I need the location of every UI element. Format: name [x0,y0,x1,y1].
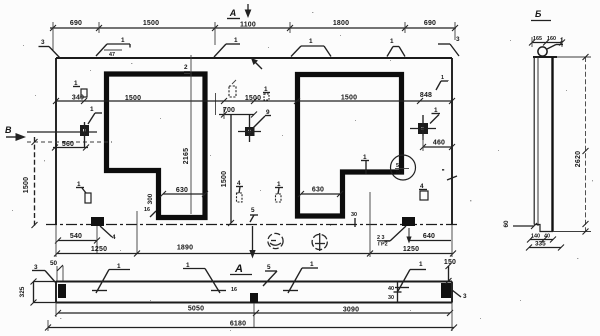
svg-text:1250: 1250 [403,246,419,253]
side view top dim 165 160 [529,36,565,47]
center vertical dim 1500 [221,115,234,227]
svg-text:40: 40 [388,286,394,292]
svg-text:16: 16 [231,287,237,293]
section arrow B left [5,125,26,141]
flag 3 bar left [32,264,56,283]
svg-text:1500: 1500 [143,20,159,27]
svg-text:540: 540 [70,233,82,240]
svg-text:5: 5 [267,264,271,271]
dim 630 opening1 [160,187,208,197]
lifting loop square center [238,109,271,142]
bar anchor right [441,283,451,298]
side view bottom dims 140 40 335 [526,234,564,251]
lifting loop square left [27,106,112,148]
svg-text:1250: 1250 [91,246,107,253]
dim 150 right [444,259,456,284]
svg-text:30: 30 [388,295,394,301]
flag 3 top-right corner [438,36,460,56]
flag near 848 [436,75,448,90]
flag 1 center-right [291,38,331,57]
dim 560 [52,141,89,151]
svg-text:3: 3 [41,39,45,46]
item symbol 1 between openings [275,181,283,202]
svg-text:690: 690 [424,20,436,27]
svg-text:165: 165 [533,36,542,42]
tick on right edge [442,169,457,180]
side view body [533,57,591,232]
bar flag 1 b [183,262,226,293]
svg-text:1: 1 [309,38,313,45]
svg-text:340: 340 [72,95,84,102]
flag 16 on chain line left [137,207,156,254]
flag 30 on chain line right [351,212,357,227]
anchor plate right bottom [377,217,415,248]
svg-text:1: 1 [441,75,444,81]
side view loop flag [547,38,563,49]
svg-text:9: 9 [266,109,270,116]
svg-text:16: 16 [144,207,150,213]
detail circle callout 5 [391,155,416,180]
svg-text:2165: 2165 [183,148,190,164]
flag 5 on bar top [263,264,277,286]
svg-text:5: 5 [251,207,255,214]
svg-text:325: 325 [19,286,26,297]
bottom dim row 1250 1890 1250 [54,192,456,257]
svg-text:47: 47 [109,52,115,58]
svg-text:3090: 3090 [343,307,359,314]
svg-text:630: 630 [312,187,324,194]
opening 1 (left, thick border) [107,74,206,218]
item symbol 1 above 340 [73,80,87,97]
label 2 below top edge [184,64,190,74]
svg-text:60: 60 [503,220,510,228]
svg-text:1: 1 [310,261,314,268]
svg-text:1: 1 [434,107,438,114]
svg-text:30: 30 [351,212,357,218]
dim 460 [420,136,455,151]
svg-text:1500: 1500 [23,177,30,193]
svg-text:1: 1 [234,37,238,44]
flag 1 over opening2 [387,38,405,57]
bar anchor left [58,284,66,298]
svg-text:1800: 1800 [333,20,349,27]
svg-text:50: 50 [50,260,58,267]
svg-text:848: 848 [420,92,432,99]
bar flag 1 c [283,261,318,293]
flag 3 bar right anchor [452,290,467,300]
svg-text:4: 4 [112,234,116,241]
dim 325 vertical left [19,279,37,306]
item symbol 4 between openings [236,180,243,202]
lifting loop square right [410,107,440,140]
svg-text:А: А [234,263,243,275]
left vertical dim 1500 [23,137,38,228]
left edge extension down [55,225,57,257]
bar anchor center [250,293,258,303]
svg-text:690: 690 [70,20,82,27]
item symbol 1 x266 [263,86,270,100]
flag 5 on chain line [250,207,258,222]
svg-text:1: 1 [560,38,563,44]
svg-text:700: 700 [223,107,235,114]
flag 1 over opening1 [96,37,130,58]
side view lifting loop circle [538,47,547,56]
svg-text:A: A [229,8,237,18]
axis circle symbol right [312,233,327,251]
side view 60 leader [503,220,537,229]
svg-text:1: 1 [121,37,125,44]
svg-text:1500: 1500 [341,95,357,102]
bar flag 1 d [395,261,426,291]
svg-text:300: 300 [147,193,154,204]
dim row 5050 3090 [55,303,453,328]
axis circle symbol left [268,233,283,248]
item flag 1 on ledge opening2 [361,154,369,174]
svg-text:1500: 1500 [125,95,141,102]
item symbol small rect x230 [229,80,236,97]
section mark A top [227,4,251,19]
side view vertical dim 2620 [575,54,589,235]
svg-text:335: 335 [535,241,546,248]
svg-text:1500: 1500 [221,171,228,187]
side view title Б [531,9,551,21]
section mark A bottom [230,226,256,275]
svg-text:560: 560 [62,141,74,148]
svg-text:1: 1 [390,38,394,45]
svg-text:140: 140 [531,234,540,240]
panel outline elevation [56,58,452,225]
svg-text:1: 1 [419,261,423,268]
arrow leader at top edge center [251,58,262,69]
dim 540 [55,226,100,254]
dim 700 [219,107,257,119]
vertical dim 2165 in opening1 [183,55,191,214]
svg-text:5050: 5050 [188,306,204,313]
panel bottom chain line [46,224,458,226]
svg-text:1500: 1500 [245,95,261,102]
svg-text:630: 630 [176,187,188,194]
opening 2 (right, thick border) [298,75,402,217]
svg-text:2: 2 [184,64,188,71]
mid horizontal dimension line y=101 [53,98,455,104]
section bar A-A [33,282,452,303]
svg-text:640: 640 [423,233,435,240]
left bar vertical extension [55,303,57,318]
anchor plate left bottom [91,217,116,241]
dim 640 [406,228,451,244]
svg-text:40: 40 [544,234,550,240]
dims 40 30 on bar [388,282,402,303]
svg-text:3: 3 [456,36,460,43]
item symbol 1 left margin [76,181,91,203]
svg-text:160: 160 [547,36,556,42]
svg-text:М1: М1 [396,170,404,176]
svg-text:1890: 1890 [177,245,193,252]
flag 3 top-left corner [39,39,61,58]
svg-text:2620: 2620 [575,151,582,167]
svg-text:1100: 1100 [240,22,256,29]
flag 1 center-left [214,37,240,57]
svg-text:1: 1 [90,106,94,113]
dim 630 opening2 [298,187,343,198]
svg-text:В: В [5,125,12,135]
bar flag 1 a [92,263,130,293]
svg-text:3: 3 [463,293,467,300]
svg-text:6180: 6180 [230,321,246,328]
right edge extension down [451,225,453,257]
svg-text:460: 460 [433,140,445,147]
dim row 6180 [45,320,457,331]
svg-text:ГР2: ГР2 [378,242,388,248]
dim 50 left [50,260,63,281]
item symbol 4 right margin [419,183,428,200]
top dimension line [50,22,458,115]
svg-text:Б: Б [535,9,542,19]
